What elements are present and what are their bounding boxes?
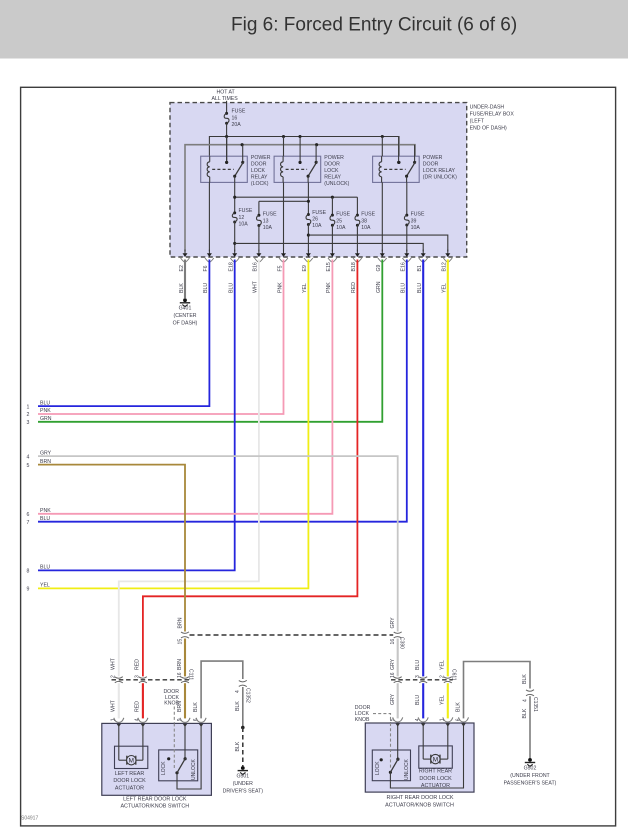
wire BLK right box pin 6 to ground branch [464,662,531,719]
stub busA to K3 coil [381,137,383,157]
row 3 wire GRN from pin G9 [38,260,382,422]
right knob dashed actuation line (inside box) [390,723,392,770]
svg-text:DOOR LOCK: DOOR LOCK [419,776,452,782]
svg-text:RIGHT REAR: RIGHT REAR [419,769,452,775]
svg-text:RED: RED [135,659,141,670]
relay K1 power door lock relay (lock) box [201,156,248,182]
svg-text:3: 3 [27,420,30,426]
svg-text:RELAY: RELAY [251,175,268,181]
svg-text:BLU: BLU [203,283,209,293]
svg-text:KNOB: KNOB [164,701,179,707]
wire WHT from pin B16 to left actuator [119,260,259,677]
wire fuse39 to pin E16 [406,225,408,252]
rail from K2 output to fuses 13/26 [307,182,309,214]
svg-text:YEL: YEL [442,283,448,293]
svg-text:LOCK: LOCK [375,761,381,775]
row 5 wire BRN to left door connector [38,465,185,632]
svg-text:YEL: YEL [302,283,308,293]
wire K3 output to fuse 39 [406,182,408,215]
svg-text:BLK: BLK [193,702,199,712]
right switch common to BLK pin 6 wire [390,723,463,788]
svg-text:YEL: YEL [440,660,446,670]
wire BRN continues to left box [184,639,186,677]
svg-text:C390: C390 [399,637,405,649]
right actuator motor sub-box [419,746,453,768]
svg-text:PASSENGER'S SEAT): PASSENGER'S SEAT) [504,781,557,787]
svg-text:10A: 10A [263,225,273,231]
wire WHT conn to pin 1 [118,683,120,718]
svg-text:BLU: BLU [40,400,50,406]
svg-text:B1: B1 [417,265,423,271]
svg-text:16: 16 [390,672,396,678]
wire K3 coil to pin G9 [381,182,383,251]
under-dash fuse/relay box [170,103,467,257]
fuse box pin E2 (BLK wire) [184,250,186,255]
relay K3 power door lock relay (dr unlock) right contact stub [414,145,416,163]
svg-text:POWER: POWER [324,155,344,161]
svg-text:G9: G9 [376,264,382,271]
svg-text:4: 4 [27,454,30,460]
fuse box pin F5 (PNK wire) [283,250,285,255]
fuse box pin E16 (BLU wire) [406,250,408,255]
left box pin entries [114,718,124,723]
svg-text:(UNLOCK): (UNLOCK) [324,181,349,187]
left switch common to BLK pin 6 wire [177,723,201,789]
svg-text:BLK: BLK [456,702,462,712]
svg-text:YEL: YEL [440,695,446,705]
svg-text:POWER: POWER [423,155,443,161]
left knob dashed actuation line (inside box) [173,723,175,770]
svg-text:FUSE: FUSE [411,212,425,218]
wire YEL conn to pin 1 [447,683,449,718]
row 4 wire GRY to right door connector [38,456,398,631]
svg-text:F5: F5 [277,265,283,271]
svg-text:4: 4 [522,699,528,702]
fuse F12 (FUSE 12 10A) [233,211,236,214]
svg-text:OF DASH): OF DASH) [173,321,198,327]
svg-text:10A: 10A [239,222,249,228]
right knob switch sub-box [372,750,410,781]
svg-text:E18: E18 [229,262,235,271]
right knob switch contacts and arm [397,723,399,759]
wire fuse25 to pin E15 [331,225,333,251]
wire BLU from pin B1 to right actuator [422,260,424,677]
fuse box pin E15 (PNK wire) [331,250,333,255]
svg-text:10A: 10A [312,223,322,229]
right knob dashed actuation line (upper) [373,714,391,723]
relay K2 power door lock relay (unlock) box [274,156,321,182]
svg-text:ACTUATOR: ACTUATOR [115,786,144,792]
wire BLK to splice dot [242,687,244,728]
svg-text:DOOR: DOOR [324,162,340,168]
svg-text:16: 16 [390,639,396,645]
relay K1 power door lock relay (lock) left contact stub [226,137,228,163]
bus A (power bus from fuse 16) [209,137,399,163]
relay K1 power door lock relay (lock) coil [209,156,211,162]
svg-text:GRN: GRN [40,416,52,422]
svg-text:12: 12 [239,215,245,221]
relay K3 power door lock relay (dr unlock) box [373,156,420,182]
svg-text:WHT: WHT [111,699,117,712]
svg-text:BRN: BRN [177,659,183,670]
svg-text:BLK: BLK [235,741,241,751]
svg-text:C1351: C1351 [532,697,538,712]
wire fuse16 to bus A [226,123,228,136]
svg-text:DRIVER'S SEAT): DRIVER'S SEAT) [223,789,264,795]
svg-text:LEFT REAR: LEFT REAR [115,771,145,777]
wire BLK from pin E2 to ground G401 [184,260,186,299]
svg-text:RED: RED [135,701,141,712]
fuse F26 (FUSE 26 10A) [307,213,310,216]
svg-text:UNLOCK: UNLOCK [404,758,410,780]
fuse F16 (FUSE 16 20A) [225,112,228,115]
svg-text:FUSE: FUSE [263,212,277,218]
svg-text:ACTUATOR/KNOB SWITCH: ACTUATOR/KNOB SWITCH [385,802,454,808]
svg-text:POWER: POWER [251,155,271,161]
svg-text:ACTUATOR/KNOB SWITCH: ACTUATOR/KNOB SWITCH [120,804,189,810]
svg-text:UNDER-DASH: UNDER-DASH [470,104,505,110]
wire RED conn to pin 4 [142,683,144,718]
svg-text:(DR UNLOCK): (DR UNLOCK) [423,175,457,181]
ground G401 [183,298,187,302]
wire fuse16/busA to relay K1 left contact [226,137,228,163]
svg-text:(UNDER: (UNDER [233,781,253,787]
svg-text:25: 25 [336,218,342,224]
junction dots on bus B [241,143,244,146]
svg-text:WHT: WHT [253,280,259,293]
svg-text:M: M [129,758,134,765]
svg-text:LOCK RELAY: LOCK RELAY [423,168,456,174]
fuse box pin G9 (GRN wire) [381,250,383,255]
svg-text:RIGHT REAR DOOR LOCK: RIGHT REAR DOOR LOCK [387,795,454,801]
right actuator motor M2 [422,723,424,759]
svg-text:GRY: GRY [390,693,396,705]
svg-text:F6: F6 [203,265,209,271]
svg-text:G401: G401 [179,306,192,312]
svg-text:BLU: BLU [40,565,50,571]
svg-text:BLK: BLK [522,674,528,684]
wire GRY conn to pin 5 [397,683,399,718]
stub busA to K2 coil [283,137,285,157]
svg-text:BLU: BLU [417,283,423,293]
svg-text:E2: E2 [179,265,185,271]
svg-text:C611: C611 [450,669,456,681]
svg-text:BLU: BLU [40,516,50,522]
svg-text:4: 4 [235,690,241,693]
relay K3 power door lock relay (dr unlock) output wire [406,176,408,182]
svg-text:5: 5 [27,463,30,469]
svg-text:BLU: BLU [415,660,421,670]
svg-text:BRN: BRN [178,617,184,628]
connector 4 on BLK ground branch / C1352 [239,680,247,682]
svg-text:E15: E15 [326,262,332,271]
rail from K1 output to fuses 12/25/38 [234,182,236,213]
svg-text:LOCK: LOCK [324,168,339,174]
svg-text:20A: 20A [232,122,242,128]
fuse box pin E9 (YEL wire) [307,250,309,255]
svg-text:ALL TIMES: ALL TIMES [211,96,238,102]
junction dots on bus A [225,135,228,138]
svg-text:8: 8 [27,569,30,575]
svg-text:BLK: BLK [235,701,241,711]
wire YEL from pin B12 to right actuator [447,260,449,677]
svg-text:15: 15 [178,639,184,645]
svg-text:UNLOCK: UNLOCK [191,758,197,780]
svg-text:DOOR: DOOR [251,162,267,168]
svg-text:(UNDER FRONT: (UNDER FRONT [510,773,550,779]
relay K2 power door lock relay (unlock) right contact stub [315,145,317,163]
left knob switch contacts and arm [184,723,186,758]
right box pin entries [393,717,403,722]
row 8 wire BLU from pin E18 [38,260,235,571]
svg-text:E9: E9 [302,265,308,271]
relay K2 power door lock relay (unlock) output wire [307,176,309,182]
fuse box pin B18 (RED wire) [356,250,358,255]
svg-text:BLU: BLU [401,283,407,293]
svg-text:BLK: BLK [522,708,528,718]
svg-text:LEFT REAR DOOR LOCK: LEFT REAR DOOR LOCK [123,796,187,802]
relay K3 power door lock relay (dr unlock) coil-arm dashed link [384,168,406,170]
fuse box pin B12 (YEL wire) [447,250,449,255]
svg-text:10A: 10A [411,225,421,231]
wire BLK to ground G502 [529,696,531,758]
svg-text:DOOR LOCK: DOOR LOCK [113,778,146,784]
svg-text:E16: E16 [401,262,407,271]
svg-text:13: 13 [263,218,269,224]
relay K3 power door lock relay (dr unlock) switch arm [407,161,416,176]
svg-text:38: 38 [361,218,367,224]
relay K3 power door lock relay (dr unlock) left contact stub [398,137,400,163]
wire K2 coil to pin F5 [283,182,285,251]
svg-text:(CENTER: (CENTER [173,313,196,319]
relay K1 power door lock relay (lock) coil-arm dashed link [212,168,234,170]
wire BLU conn to pin 4 [422,683,424,718]
wire fuse12 to pins E18 and B1 rail [234,222,236,252]
wire busA to relay K2 left contact [298,161,301,164]
svg-text:9: 9 [27,587,30,593]
svg-text:KNOB: KNOB [355,717,370,723]
dashed BLK wire to ground G501 [242,728,244,767]
dashed link wire between connectors 15 and 16 [190,634,394,636]
fuse F25 (FUSE 25 10A) [331,214,334,217]
relay K1 power door lock relay (lock) switch arm [235,161,244,176]
svg-text:DOOR: DOOR [423,162,439,168]
svg-text:LOCK: LOCK [251,168,266,174]
left actuator motor M1 [118,723,120,760]
svg-text:FUSE/RELAY BOX: FUSE/RELAY BOX [470,111,515,117]
svg-text:7: 7 [27,520,30,526]
wire busA to relay K3 left contact [397,161,400,164]
fuse F39 (FUSE 39 10A) [405,214,408,217]
svg-text:39: 39 [411,218,417,224]
wire from HOT AT ALL TIMES to fuse 16 [226,101,228,114]
svg-text:FUSE: FUSE [239,208,253,214]
svg-text:PNK: PNK [40,408,51,414]
svg-text:END OF DASH): END OF DASH) [470,125,507,131]
wire BRN conn to pin 9 [184,683,186,718]
fuse box pin E18 (BLU wire) [234,250,236,255]
fuse F38 (FUSE 38 10A) [356,214,359,217]
svg-text:1: 1 [27,404,30,410]
svg-text:LOCK: LOCK [161,761,167,775]
svg-text:6: 6 [27,512,30,518]
fuse box pin F6 (BLU wire) [208,250,210,255]
left rear door lock actuator/knob switch box [102,723,212,795]
svg-text:PNK: PNK [40,508,51,514]
svg-text:BLU: BLU [229,283,235,293]
wire GRY continues to right box [397,639,399,677]
svg-text:10A: 10A [336,225,346,231]
svg-text:C1352: C1352 [244,688,250,703]
svg-text:GRY: GRY [390,617,396,629]
svg-text:16: 16 [232,115,238,121]
svg-text:Fig 6: Forced Entry Circuit (6: Fig 6: Forced Entry Circuit (6 of 6) [231,15,517,36]
relay K3 power door lock relay (dr unlock) coil [381,156,383,162]
fuse box pin B1 (BLU wire) [422,250,424,255]
svg-text:2: 2 [27,412,30,418]
relay K2 power door lock relay (unlock) coil [282,156,284,162]
svg-text:(LOCK): (LOCK) [251,181,269,187]
row 1 wire BLU from pin F6 [38,260,209,407]
bus B gray BLK bus to relay NC contacts and pin E2 [185,145,415,252]
svg-text:10A: 10A [361,225,371,231]
svg-text:ACTUATOR: ACTUATOR [421,783,450,789]
wire fuse26 to pins E9 and B12 rail [307,225,309,252]
right door connector dashed line [391,679,453,681]
row 2 wire PNK from pin F5 [38,260,284,415]
relay K2 power door lock relay (unlock) left contact stub [299,137,301,163]
left door connector dashed line [112,679,190,681]
svg-text:YEL: YEL [40,583,50,589]
svg-text:B16: B16 [253,262,259,271]
wire K1 coil to pin F6 [208,182,210,251]
row 6 wire PNK from pin E15 [38,260,332,514]
left actuator motor sub-box [115,746,148,768]
row 9 wire YEL from pin E9 [38,260,308,589]
title header bar [0,0,628,59]
fuse F13 (FUSE 13 10A) [257,214,260,217]
svg-text:FUSE: FUSE [361,212,375,218]
ground G501 [241,766,245,770]
fuse box pin B16 (WHT wire) [258,250,260,255]
right rear door lock actuator/knob switch box [365,723,474,792]
row 7 wire BLU from pin E16 [38,260,407,522]
svg-text:GRN: GRN [376,281,382,293]
svg-text:S04917: S04917 [21,816,38,822]
wire RED from pin B18 to left actuator [143,260,358,677]
svg-text:M: M [433,757,438,764]
svg-text:FUSE: FUSE [312,210,326,216]
svg-text:HOT AT: HOT AT [216,89,235,95]
svg-text:C111: C111 [188,669,194,680]
left knob dashed actuation line (upper) [173,707,175,723]
left knob switch sub-box [159,750,198,781]
svg-text:BLK: BLK [179,283,185,293]
wire BLK left box pin 6 to ground branch [201,661,243,718]
wire fuse38 to pin B18 [356,225,358,251]
svg-text:PNK: PNK [326,282,332,293]
svg-text:FUSE: FUSE [336,212,350,218]
svg-text:(LEFT: (LEFT [470,118,485,124]
svg-text:B18: B18 [351,262,357,271]
svg-text:WHT: WHT [111,657,117,670]
svg-text:G501: G501 [236,774,249,780]
connector 4 on BLK ground branch / C1351 [526,690,534,692]
svg-text:FUSE: FUSE [232,109,246,115]
relay K2 power door lock relay (unlock) coil-arm dashed link [286,168,308,170]
svg-text:PNK: PNK [277,282,283,293]
svg-text:BLU: BLU [415,695,421,705]
wire fuse13 to pin B16 [258,226,260,252]
relay K2 power door lock relay (unlock) switch arm [308,161,317,176]
relay K1 power door lock relay (lock) output wire [234,176,236,182]
svg-text:RED: RED [351,282,357,293]
ground G502 [528,758,532,762]
svg-text:RELAY: RELAY [324,175,341,181]
svg-text:B12: B12 [442,262,448,271]
svg-text:G502: G502 [524,766,537,772]
svg-text:26: 26 [312,217,318,223]
svg-text:GRY: GRY [390,658,396,670]
relay K1 power door lock relay (lock) right contact stub [242,145,244,163]
